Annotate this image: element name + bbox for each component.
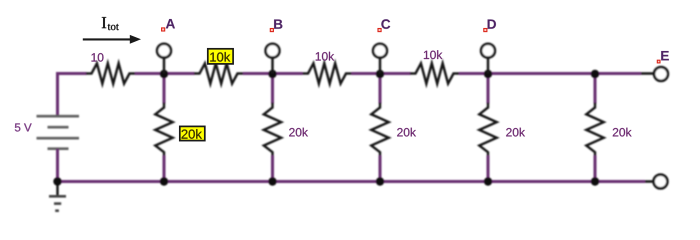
wire bottom rail: [58, 180, 646, 183]
value label 10: [92, 53, 104, 62]
wire top rail segment 4 (R3 to R4 through node C): [352, 72, 411, 75]
resistor R1 10 (series): [86, 63, 135, 83]
wire shunt top lead at x=380: [379, 74, 382, 104]
junction on top rail at x=272.5: [268, 70, 276, 78]
wire top rail segment 3 (R2 to R3 through node B): [243, 72, 303, 75]
value label 20k: [397, 128, 416, 137]
wire stub to E terminal: [641, 72, 654, 75]
wire top rail segment 1 (battery corner to R1): [58, 74, 87, 117]
wire battery negative lead: [56, 149, 59, 182]
wire shunt bottom lead at x=164: [163, 156, 166, 182]
terminal circle node B: [266, 44, 280, 58]
node C label: [378, 19, 390, 31]
node D label: [484, 19, 496, 31]
terminal circle node C: [373, 44, 387, 58]
value label 20k highlighted: [180, 126, 205, 140]
resistor R8 20k (shunt): [479, 103, 496, 156]
resistor R4 10k (series): [410, 63, 459, 83]
resistor R3 10k (series): [303, 63, 352, 83]
junction on bottom rail at x=164: [160, 177, 168, 185]
junction on top rail at x=380: [376, 70, 384, 78]
node E label: [657, 51, 669, 63]
resistor R2 10k (series, highlighted): [194, 63, 243, 83]
terminal circle node A: [157, 44, 171, 58]
junction on bottom rail at x=380: [376, 177, 384, 185]
node A label: [162, 19, 175, 31]
junction on bottom rail at x=57.5: [53, 177, 61, 185]
value label 20k: [613, 128, 632, 137]
terminal circle bottom-right: [654, 175, 668, 189]
value label 20k: [506, 128, 525, 137]
terminal stem node C: [379, 58, 382, 74]
value label 5 V: [15, 123, 32, 131]
wire shunt bottom lead at x=380: [379, 156, 382, 182]
junction on bottom rail at x=272.5: [268, 177, 276, 185]
junction on top rail at x=488: [484, 70, 492, 78]
battery V1 5 V: [37, 116, 80, 149]
resistor R5 20k (shunt): [155, 103, 172, 156]
wire stub to bottom-right terminal: [645, 180, 653, 183]
wire top rail segment 5 (R4 through node D to E terminal): [459, 72, 641, 75]
value label 20k: [289, 128, 308, 137]
junction on top rail at x=164: [160, 70, 168, 78]
resistor R9 20k (shunt): [586, 103, 603, 156]
value label 10k highlighted: [208, 49, 233, 64]
wire shunt bottom lead at x=488: [487, 156, 490, 182]
terminal stem node D: [487, 58, 490, 74]
terminal stem node B: [271, 58, 274, 74]
junction on bottom rail at x=488: [484, 177, 492, 185]
wire shunt top lead at x=488: [487, 74, 490, 104]
wire top rail segment 2 (R1 to R2 through node A): [135, 72, 195, 75]
resistor R6 20k (shunt): [264, 103, 281, 156]
terminal circle node D: [481, 44, 495, 58]
current arrow: [83, 35, 141, 44]
terminal stem node A: [163, 58, 166, 74]
junction on bottom rail at x=595: [591, 177, 599, 185]
wire shunt top lead at x=272.5: [271, 74, 274, 104]
wire shunt bottom lead at x=272.5: [271, 156, 274, 182]
resistor R7 20k (shunt): [371, 103, 388, 156]
value label 10k: [316, 52, 334, 61]
ground: [49, 182, 66, 211]
node B label: [270, 19, 282, 31]
terminal circle node E: [654, 67, 668, 81]
wire shunt bottom lead at x=595: [594, 156, 597, 182]
wire shunt top lead at x=595: [594, 74, 597, 104]
current label I_tot: [102, 17, 119, 30]
junction on top rail at x=595: [591, 70, 599, 78]
value label 10k: [424, 50, 442, 59]
wire shunt top lead at x=164: [163, 74, 166, 104]
